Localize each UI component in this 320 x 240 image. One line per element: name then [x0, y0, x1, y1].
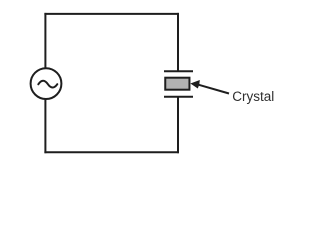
annotation arrow head [190, 80, 199, 89]
annotation arrow shaft [199, 85, 229, 94]
AC sine symbol [38, 81, 57, 88]
wire top horizontal [44, 13, 179, 15]
wire left vertical upper [44, 13, 46, 69]
crystal body [165, 78, 189, 90]
wire right vertical upper [177, 13, 179, 71]
wire left vertical lower [44, 99, 46, 153]
crystal bottom plate [164, 96, 193, 98]
wire bottom horizontal [44, 151, 179, 153]
svg-text:Crystal: Crystal [232, 89, 274, 104]
AC source [31, 68, 62, 99]
crystal top plate [164, 70, 193, 72]
wire right vertical lower [177, 97, 179, 154]
